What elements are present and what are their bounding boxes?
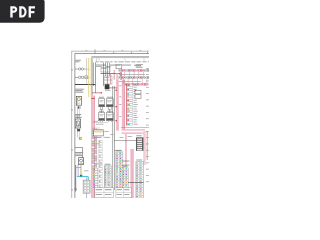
- relay K3: [106, 97, 113, 110]
- CR text row b: [119, 80, 141, 83]
- frame zone ticks top: [95, 49, 147, 53]
- yellow stub row2: [84, 77, 90, 79]
- wire S3 link b: [122, 164, 130, 166]
- wire red stub left: [113, 70, 115, 80]
- schematic page thumbnail: [0, 0, 149, 198]
- power bus wire top A: [92, 56, 150, 58]
- horn H1: [79, 158, 84, 165]
- wire red risers: [120, 72, 121, 79]
- connector strip S2 rail: [125, 84, 127, 126]
- wire black v5 long: [112, 86, 114, 190]
- wire black v1: [92, 63, 94, 87]
- wire black v4b: [105, 63, 107, 77]
- fuse box F2: [101, 68, 110, 73]
- relay K1 box: [75, 119, 80, 128]
- wire grey drop 1: [91, 58, 93, 96]
- fuse block FB1: [136, 137, 143, 150]
- starter M1: [78, 76, 87, 79]
- relay K5: [106, 111, 113, 122]
- FB1 label: [136, 134, 142, 137]
- terminal table block 1: [95, 188, 114, 198]
- PDF file-type badge: [0, 0, 45, 23]
- wire grey drop 0: [86, 58, 88, 85]
- terminal table block 2: [116, 188, 131, 198]
- fuse box F3: [104, 76, 112, 84]
- extra centre text specks: [96, 131, 132, 144]
- harness band pink horizontal lower: [122, 132, 146, 134]
- top-right unit boxes: [116, 64, 143, 69]
- connector X3: [80, 175, 82, 177]
- left title text block: [75, 60, 81, 63]
- yellow stub row1: [84, 68, 90, 70]
- battery wire yellow 2: [89, 58, 91, 97]
- power bus wire top B: [92, 57, 150, 59]
- ground wire heavy: [75, 165, 77, 189]
- connector strip S7: [122, 168, 128, 188]
- badge letter P: [10, 6, 17, 17]
- right margin text ticks: [146, 68, 149, 182]
- S3 top rule: [115, 150, 122, 152]
- battery feed yellow wire 1: [77, 99, 79, 137]
- control unit A1 (tan header): [94, 130, 104, 136]
- drawing frame border: [75, 54, 165, 212]
- wire red centre: [92, 92, 102, 93]
- wire grey drop 2: [92, 58, 94, 96]
- connector strip S5: [104, 166, 111, 188]
- horn wire: [80, 165, 82, 176]
- left text block A: [75, 89, 84, 93]
- ground symbol: [74, 189, 77, 192]
- wire lavender vertical: [77, 164, 79, 176]
- wire black v3: [103, 63, 105, 87]
- stub wires below bus: [97, 58, 145, 61]
- wire junction drop: [94, 84, 96, 93]
- pink band upper step: [116, 74, 118, 81]
- left text block B: [75, 114, 82, 118]
- connector X1: [77, 106, 80, 108]
- wire black v4c: [109, 63, 111, 77]
- wire olive vertical: [80, 164, 82, 176]
- wire red right edge: [146, 131, 148, 160]
- centre text block: [92, 121, 108, 128]
- CR interlink wires: [120, 72, 147, 84]
- fuse F1 box: [76, 96, 81, 105]
- connector row CR3: [123, 83, 148, 85]
- generator G1: [79, 68, 84, 70]
- wire red long: [101, 73, 121, 75]
- relay K2: [99, 97, 105, 110]
- wire bottom link: [128, 182, 143, 184]
- module M2 (dark): [105, 84, 111, 91]
- wire to generator: [75, 68, 87, 70]
- bottom-left text marks: [76, 164, 103, 172]
- badge letter D: [19, 6, 26, 17]
- harness band pink horizontal upper: [122, 129, 146, 130]
- wire red from module: [109, 87, 117, 89]
- zone numbers top: [86, 49, 142, 52]
- battery feed yellow wire 2: [79, 105, 81, 137]
- harness band pink right vertical: [143, 131, 146, 165]
- relay K4: [99, 111, 105, 122]
- wire black v4: [106, 63, 108, 87]
- connector strip P1 (pins with wire colours): [92, 129, 98, 188]
- wire lavender vertical 2: [86, 177, 88, 198]
- battery bus heavy wire: [75, 83, 96, 85]
- connector strip S2: [127, 84, 138, 125]
- wire red short F3: [110, 74, 112, 84]
- yellow wire terminal: [79, 137, 81, 139]
- badge letter F: [29, 6, 35, 17]
- left text block C: [75, 152, 83, 156]
- connector strip P2: [99, 140, 102, 187]
- centre text rows mid: [94, 136, 109, 139]
- harness band pink centre drop: [125, 134, 127, 166]
- red feed wire into band: [91, 97, 95, 99]
- relay link wires: [100, 110, 111, 113]
- wire L-bend: [75, 148, 83, 158]
- label text row 2: [96, 65, 141, 67]
- wire to starter: [75, 76, 87, 78]
- connector row CR2: [119, 76, 149, 78]
- page edge (PDF sheet boundary): [72, 51, 162, 211]
- harness band pink lower drop: [130, 149, 133, 198]
- CR text row a: [119, 73, 145, 76]
- harness band pink left: [92, 96, 95, 199]
- frame zone ticks left: [71, 70, 73, 190]
- strip labels: [105, 150, 143, 167]
- battery wire yellow 1: [88, 58, 90, 97]
- junction box bottom-left: [83, 180, 90, 193]
- S2 block bottom rule: [121, 126, 149, 128]
- connector strip S3: [116, 152, 123, 188]
- connector X2: [77, 129, 80, 131]
- connector strip S4 below fuse block: [136, 162, 144, 199]
- wire cyan run: [77, 177, 88, 186]
- harness band pink main right: [122, 80, 125, 131]
- wire to FB1: [114, 140, 136, 142]
- wire black v6 long: [113, 86, 115, 190]
- wire S3 link a: [122, 160, 130, 162]
- diode boxes: [134, 90, 141, 99]
- bus label text row: [96, 60, 153, 63]
- wire black v2: [94, 63, 96, 87]
- harness band pink main left: [117, 80, 119, 131]
- pin dots on band edge: [116, 90, 117, 122]
- connector row CR1: [119, 69, 149, 71]
- gutter text specks: [119, 86, 121, 117]
